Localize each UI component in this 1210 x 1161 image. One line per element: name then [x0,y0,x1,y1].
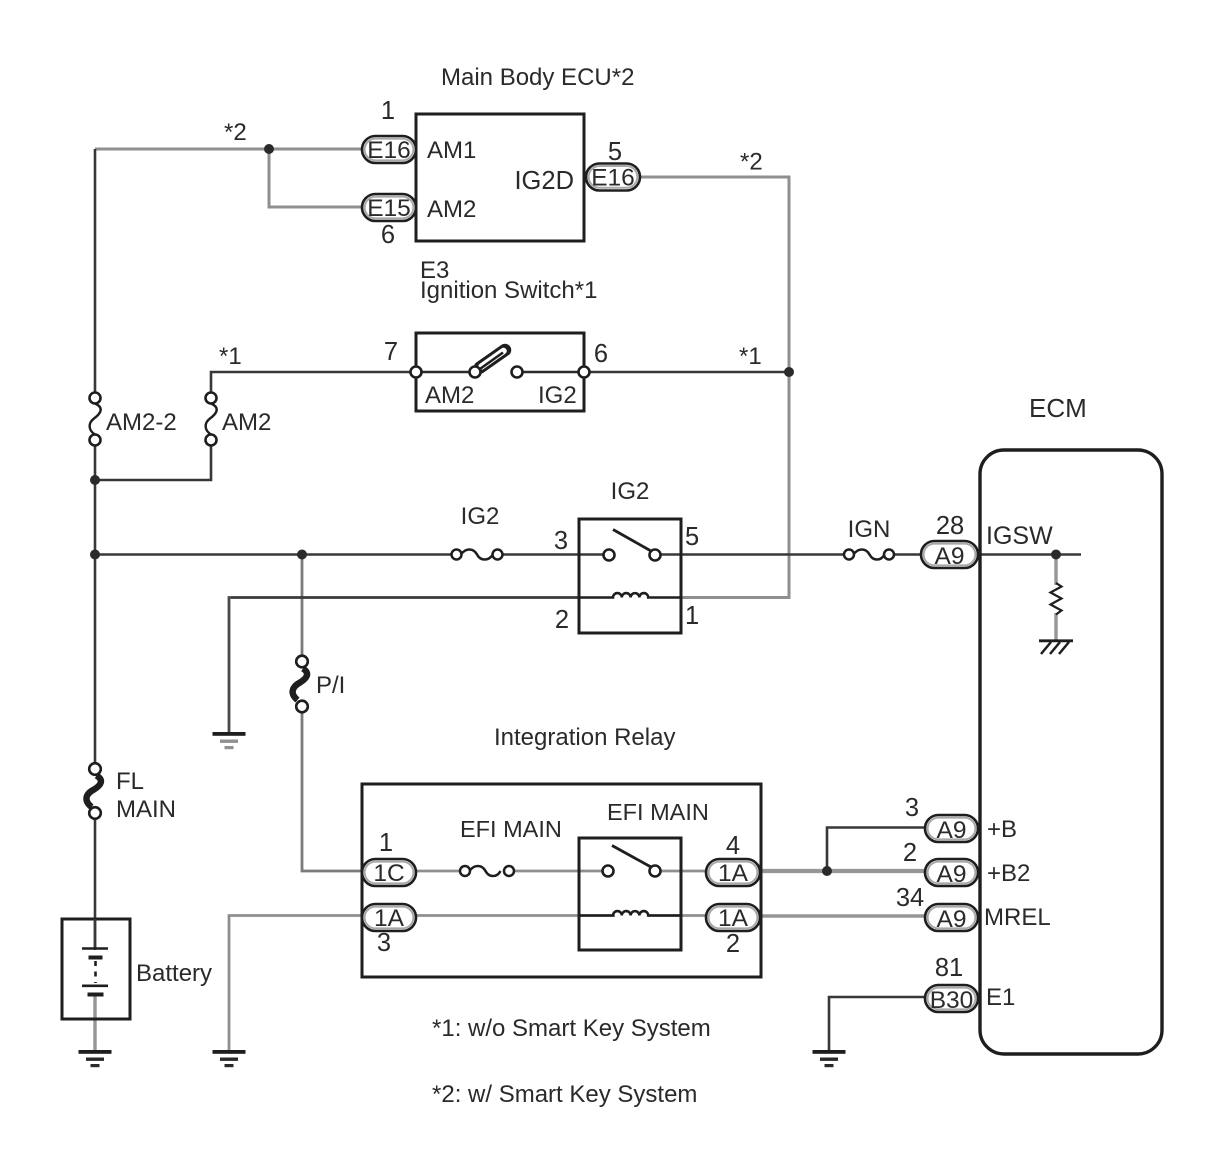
svg-text:E15: E15 [367,195,411,222]
wire: gray resistor feed below IGSW junction [1054,555,1057,586]
box: Integration Relay [362,784,761,977]
svg-text:1C: 1C [373,860,404,887]
svg-text:5: 5 [685,523,699,551]
node: junction dot *1 and *2 merge [784,367,794,377]
svg-text:1: 1 [381,97,395,125]
node: junction dot +B/+B2 split [822,866,832,876]
svg-text:*2: *2 [224,119,247,146]
svg-text:34: 34 [896,884,924,912]
svg-text:Integration Relay: Integration Relay [494,724,675,751]
IG2 relay switch blade [613,530,651,552]
svg-text:4: 4 [726,832,740,860]
node: junction dot bus left [90,550,100,560]
fuse IG2 on main bus [452,549,503,559]
connector 1C [362,859,416,887]
svg-text:MREL: MREL [984,904,1051,931]
svg-text:6: 6 [594,340,608,368]
svg-text:E16: E16 [591,165,635,192]
connector A9 (+B) [925,815,978,844]
fuse AM2 [206,393,217,446]
ground: E1 ground [813,1050,846,1067]
switch lever of ignition switch [475,350,505,373]
svg-text:IG2: IG2 [538,382,577,409]
EFI MAIN relay switch blade [612,846,651,868]
svg-text:FL: FL [116,768,144,795]
svg-text:1: 1 [379,829,393,857]
svg-text:A9: A9 [937,861,967,888]
svg-text:A9: A9 [937,817,967,844]
wire: black main bus fuse to relay [494,553,605,556]
svg-text:AM1: AM1 [427,137,476,164]
connector A9 (+B2) [925,859,978,888]
wire: black +B branch [827,828,925,872]
connector E16 (IG2D) [586,164,640,192]
IG2 relay switch contacts [604,550,615,561]
ground: battery ground [79,1050,112,1067]
fusible link P/I [293,656,308,713]
svg-text:ECM: ECM [1029,393,1087,423]
node: junction dot top-left *2 split [264,144,274,154]
wire: thick gray +B2 from 1A oval to A9 oval [760,869,925,873]
svg-text:3: 3 [905,794,919,822]
svg-text:7: 7 [384,338,398,366]
connector A9 (IGSW) [921,541,978,570]
svg-text:Ignition Switch*1: Ignition Switch*1 [420,277,597,304]
svg-text:28: 28 [936,512,964,540]
wire: black *1 run from AM2 fuse to ignition switch pin7 [211,372,416,398]
connector E16 (AM1) [362,136,416,164]
svg-text:1A: 1A [718,905,749,932]
fuse EFI MAIN [460,866,514,876]
svg-text:+B2: +B2 [987,860,1030,887]
node: junction dot IGSW resistor [1051,550,1061,560]
svg-text:A9: A9 [935,543,965,570]
svg-text:Battery: Battery [136,960,212,987]
wire: gray coil row from 1A bottom-left oval to coil and to 1A bottom-right oval [416,914,615,917]
wire: gray ground run from 1A(3) left and down [229,916,362,1051]
wire: black IGSW inside ECM [980,553,1081,556]
node: junction dot AM2 fuse merge [90,475,100,485]
node: junction dot bus P/I branch [297,550,307,560]
ground: below IG2 relay coil [213,732,246,749]
fusible link FL MAIN [86,763,101,819]
wire: black main bus left part [95,553,451,556]
wire: black AM2 fuse bottom to left vertical [95,440,211,480]
wire: gray battery to ground [93,996,96,1051]
svg-text:6: 6 [381,221,395,249]
svg-text:IGN: IGN [848,516,891,543]
svg-text:AM2: AM2 [425,382,474,409]
wire: ignition switch internal stubs [416,371,475,374]
svg-text:1A: 1A [718,860,749,887]
svg-text:2: 2 [555,606,569,634]
battery B1 [62,919,130,1019]
svg-text:IGSW: IGSW [986,522,1053,550]
svg-text:B30: B30 [930,987,974,1014]
wire: gray P/I top to bus junction [301,555,304,658]
wire: IG2 relay coil pin2 run leftwards [230,596,579,599]
svg-text:IG2: IG2 [461,503,500,530]
fuse AM2-2 [90,393,101,446]
connector E15 (AM2) [362,194,416,222]
svg-text:Main Body ECU*2: Main Body ECU*2 [441,64,634,91]
svg-text:IG2D: IG2D [514,167,574,195]
svg-text:*1: *1 [219,343,242,370]
svg-text:EFI MAIN: EFI MAIN [460,816,562,842]
connector 1A bottom right [706,904,760,932]
svg-text:1A: 1A [374,905,405,932]
EFI MAIN relay switch contacts [603,866,614,877]
wire: gray 1C oval to EFI MAIN fuse [416,870,460,873]
box: EFI MAIN relay [579,838,681,950]
svg-text:EFI MAIN: EFI MAIN [607,799,709,825]
box: ignition switch E3 [416,333,584,411]
wire: black left vertical battery feed [94,149,97,398]
wire: gray relay switch to 1A top right oval [660,870,706,873]
wire: gray 1C to P/I vertical [302,711,362,871]
resistor inside ECM [1051,583,1062,615]
svg-text:*2: *2 [740,149,763,176]
terminal circles of ignition switch [411,367,422,378]
box: ECM [980,450,1162,1054]
IG2 relay coil [579,593,681,597]
wire: black relay to IGN fuse [659,553,844,556]
svg-text:3: 3 [554,527,568,555]
svg-text:AM2-2: AM2-2 [106,409,177,436]
wire: thick gray MREL from 1A oval to A9 oval [760,914,925,918]
ground: ECM internal chassis ground [1039,641,1073,654]
wire: *2 run from IG2D E16 oval down to IG2 relay pin1 [640,177,789,598]
fuse IGN [844,549,894,559]
EFI MAIN relay coil [579,911,681,915]
svg-text:81: 81 [935,954,963,982]
wire: drop to ground below IG2 relay coil [228,596,231,732]
svg-text:AM2: AM2 [222,409,271,436]
wire: black E1 run to ground [829,997,925,1050]
svg-text:E1: E1 [986,984,1015,1011]
svg-text:2: 2 [903,839,917,867]
svg-text:3: 3 [377,929,391,957]
svg-text:2: 2 [726,930,740,958]
wire: gray resistor to ECM internal ground [1054,613,1057,641]
svg-text:A9: A9 [937,906,967,933]
svg-text:*1: w/o Smart Key System: *1: w/o Smart Key System [432,1015,711,1042]
box: Main Body ECU [416,114,584,241]
svg-text:5: 5 [608,138,622,166]
wire: gray top horizontal *2 from left vertical to E16 [95,148,362,151]
connector 1A top right [706,859,760,887]
ground: below 1A(3) run [213,1050,246,1067]
svg-text:MAIN: MAIN [116,796,176,823]
connector A9 (MREL) [925,904,978,933]
svg-text:1: 1 [685,602,699,630]
svg-text:*1: *1 [739,343,762,370]
connector B30 (E1) [925,985,978,1014]
svg-text:IG2: IG2 [611,478,650,505]
svg-text:*2: w/ Smart Key System: *2: w/ Smart Key System [432,1081,697,1108]
wire: black IGN fuse to A9 [893,553,921,556]
svg-text:+B: +B [987,816,1017,843]
wire: black ignition switch pin6 to *1 junction [584,371,789,374]
svg-text:E16: E16 [367,137,411,164]
svg-text:P/I: P/I [316,672,345,699]
svg-text:AM2: AM2 [427,196,476,223]
wire: gray EFI MAIN fuse to relay switch [503,870,604,873]
wire: gray drop from junction to E15 [269,149,362,207]
connector 1A bottom left [362,904,416,932]
box: IG2 relay [579,519,681,633]
